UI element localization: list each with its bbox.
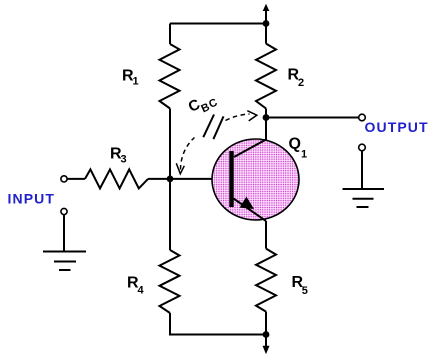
- svg-text:5: 5: [302, 285, 308, 297]
- svg-text:3: 3: [121, 154, 127, 166]
- svg-text:Q: Q: [289, 135, 301, 152]
- svg-text:2: 2: [298, 77, 304, 89]
- svg-text:OUTPUT: OUTPUT: [365, 119, 429, 135]
- svg-text:1: 1: [133, 76, 139, 88]
- svg-text:1: 1: [301, 148, 307, 160]
- svg-text:4: 4: [138, 285, 145, 297]
- svg-text:INPUT: INPUT: [8, 191, 56, 207]
